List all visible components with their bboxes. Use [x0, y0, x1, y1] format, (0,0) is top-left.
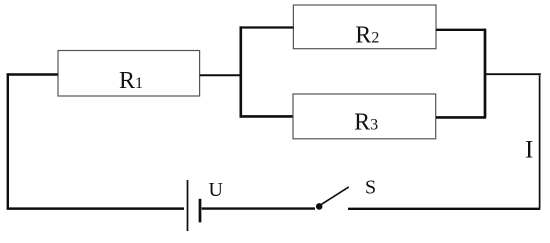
svg-text:I: I — [525, 137, 533, 164]
svg-text:U: U — [209, 179, 224, 201]
svg-text:S: S — [365, 177, 376, 199]
